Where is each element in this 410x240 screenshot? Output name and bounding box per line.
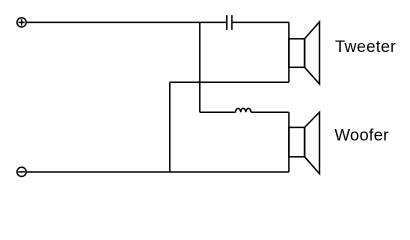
wire woofer branch right segment bbox=[251, 111, 289, 113]
svg-text:Woofer: Woofer bbox=[335, 127, 390, 145]
inductor L1 bbox=[236, 108, 252, 112]
wire tweeter return vertical bbox=[169, 82, 171, 172]
speaker tweeter bbox=[289, 22, 320, 84]
terminal + bbox=[17, 18, 26, 27]
speaker woofer bbox=[289, 112, 320, 174]
wire tweeter feed drop bbox=[288, 22, 290, 82]
terminal - bbox=[17, 167, 26, 176]
capacitor C1 bbox=[227, 15, 232, 30]
wire tweeter return horizontal bbox=[170, 81, 289, 83]
wire bottom rail bbox=[27, 171, 289, 173]
wire crossover vertical from top rail bbox=[199, 22, 201, 112]
wire top rail right of capacitor bbox=[232, 21, 289, 23]
wire woofer branch left segment bbox=[200, 111, 236, 113]
wire woofer feed drop bbox=[288, 112, 290, 172]
wire top rail left of capacitor bbox=[27, 21, 227, 23]
svg-text:Tweeter: Tweeter bbox=[335, 38, 396, 56]
